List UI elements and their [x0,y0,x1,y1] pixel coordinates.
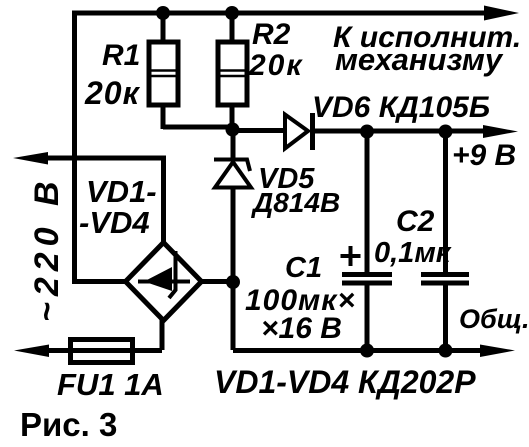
arrow: common output [480,345,515,358]
wire: bridge bottom corner down to fuse line [160,319,165,350]
wire: node down to bottom bus [231,282,236,350]
wire: fuse line [44,348,162,353]
node: bridge output / capacitor bus junction [226,275,240,289]
svg-text:0,1мк: 0,1мк [374,237,452,269]
node: C2 bottom junction [439,344,453,358]
wire: left vertical rail [72,11,77,285]
svg-text:VD1-VD4 КД202Р: VD1-VD4 КД202Р [214,364,476,400]
wire: bridge right corner to node [201,279,233,284]
node: top bus / R2 junction [225,6,239,20]
wire: AC upper line to bridge top corner [44,156,166,161]
svg-text:×16 В: ×16 В [261,312,342,345]
node: top bus / R1 junction [156,6,170,20]
svg-text:механизму: механизму [335,42,504,77]
arrow: +9V output [483,125,518,138]
node: C1 bottom junction [360,344,374,358]
svg-text:Общ.: Общ. [459,304,529,334]
node: R1/R2/VD5/VD6 junction [226,123,240,137]
arrow: top output (к исполнит. механизму) [484,6,519,21]
svg-text:20к: 20к [248,49,304,82]
diode VD6 [285,113,313,150]
capacitor C2 [421,131,469,352]
polarity +: C1 plus sign [341,246,361,266]
wire: down to bridge AC top corner [161,158,166,244]
resistor R1 [149,13,178,129]
svg-text:FU1 1А: FU1 1А [57,367,164,402]
arrow: AC input lower (~220 В) [14,345,49,358]
svg-text:C1: C1 [285,252,322,284]
wire: VD6 cathode to +9V arrow [312,129,486,134]
svg-text:VD6 КД105Б: VD6 КД105Б [312,91,490,124]
wire: R1 bottom to center node [163,125,232,130]
svg-text:~220 В: ~220 В [28,175,66,322]
svg-text:20к: 20к [84,75,141,111]
arrow: AC input upper (~220 В) [13,152,48,165]
node: C1 top junction [360,125,374,139]
svg-text:+9 В: +9 В [452,139,516,172]
bridge rectifier VD1-VD4 [126,243,202,321]
svg-text:-VD4: -VD4 [79,205,150,240]
wire: bottom bus (common) [233,348,482,353]
svg-text:Д814В: Д814В [251,187,340,218]
svg-text:R1: R1 [102,39,140,72]
node: C2 top junction [439,125,453,139]
svg-text:Рис. 3: Рис. 3 [20,406,117,443]
capacitor C1 (electrolytic) [342,131,392,352]
wire: node to VD6 anode [232,128,286,133]
svg-text:R2: R2 [252,18,291,51]
resistor R2 [218,13,247,131]
wire: top bus from left corner to output arrow [75,11,488,16]
svg-text:C2: C2 [396,205,435,238]
wire: left rail to bridge left corner [75,279,128,284]
zener diode VD5 [214,130,251,283]
fuse FU1 [71,340,133,363]
svg-text:VD1-: VD1- [86,174,157,209]
